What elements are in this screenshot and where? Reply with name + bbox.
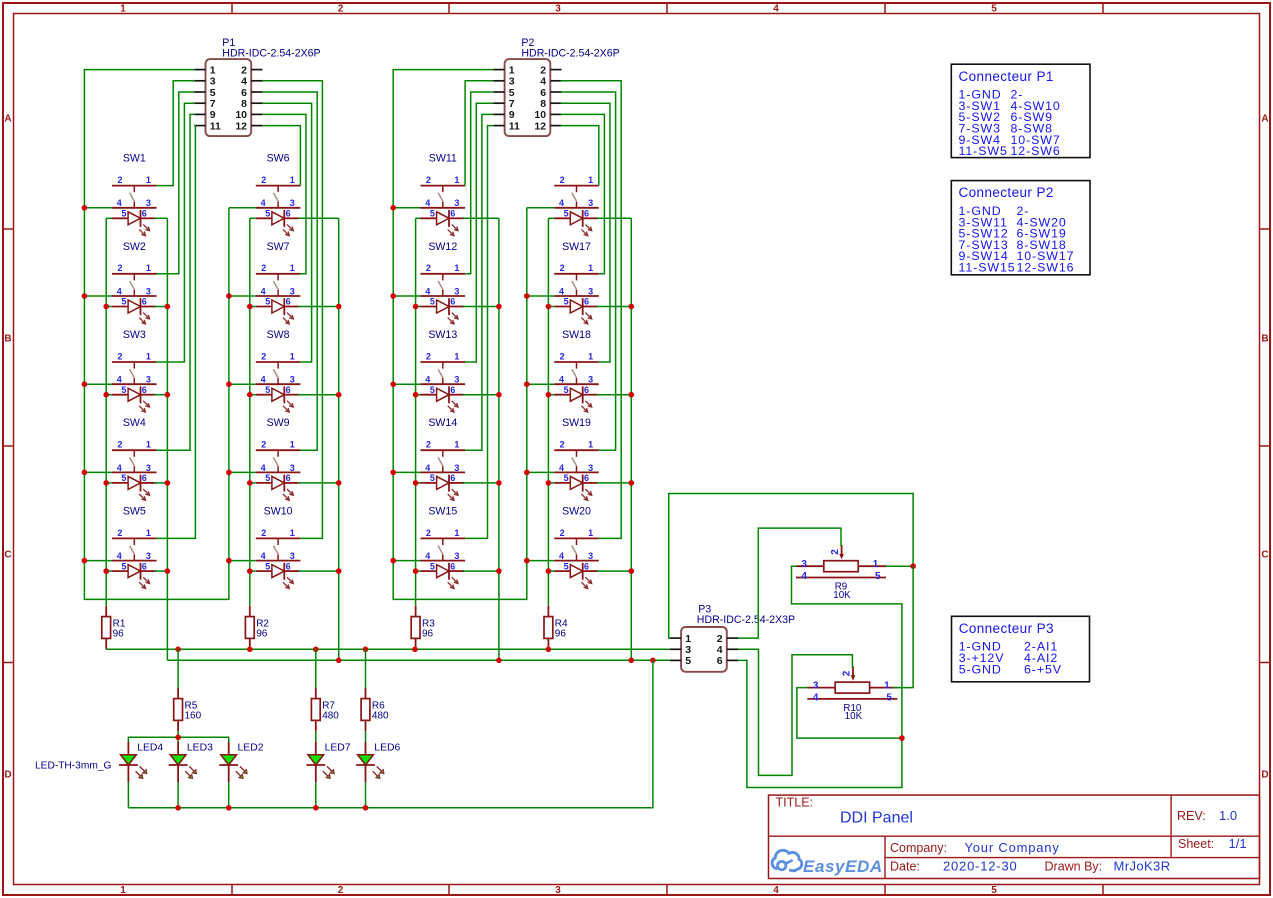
svg-text:6: 6 — [584, 209, 589, 219]
switch SW18 lever — [572, 369, 577, 378]
P2 pin 10 stub — [550, 113, 561, 115]
wire cathode tap SW8 pin 6 — [298, 394, 339, 396]
switch SW7 LED triangle — [272, 300, 284, 313]
ruler column ticks top — [232, 3, 1103, 14]
svg-text:96: 96 — [256, 629, 268, 640]
svg-text:SW10: SW10 — [264, 505, 293, 517]
junction cathode rail col1 row4 — [165, 480, 171, 486]
svg-text:1: 1 — [588, 351, 593, 361]
junction anode rail col2 row3 — [247, 392, 253, 398]
junction anode rail col2 row4 — [247, 480, 253, 486]
junction cathode rail col4 row4 — [629, 480, 635, 486]
switch SW9 pins 2-1 bar — [256, 449, 301, 451]
P1 pin 2 stub — [251, 69, 262, 71]
switch SW9 LED cathode bar — [283, 475, 285, 492]
switch SW2 LED anode stub pin 5 — [112, 306, 128, 308]
svg-text:MrJoK3R: MrJoK3R — [1114, 858, 1171, 873]
junction bus2 at col2 cathode rail — [336, 658, 342, 664]
LED LED3 cathode bar — [169, 764, 188, 766]
P3 pin 5 stub — [670, 659, 681, 661]
svg-text:6: 6 — [717, 655, 723, 667]
wire GND tap to SW6 pin 4 — [229, 207, 256, 209]
svg-text:SW13: SW13 — [428, 329, 457, 341]
switch SW12 pins 4-3 bar — [421, 295, 466, 297]
wire anode tap SW8 pin 5 — [250, 394, 256, 396]
wire cathode tap SW7 pin 6 — [298, 306, 339, 308]
wire anode tap SW9 pin 5 — [250, 482, 256, 484]
wire GND net: P2 pin1 down left rail col3, across, up col4 rail — [393, 70, 527, 600]
P1 pin 1 stub — [194, 69, 205, 71]
switch SW12 lever — [438, 281, 443, 290]
wire R9 pin1 to loop — [885, 565, 913, 567]
switch SW9 lever — [273, 457, 278, 466]
switch SW12 LED anode stub pin 5 — [421, 306, 437, 308]
title block divider logo cell — [884, 836, 886, 878]
svg-text:2: 2 — [560, 351, 565, 361]
svg-text:R1: R1 — [113, 618, 126, 629]
svg-text:6: 6 — [286, 473, 291, 483]
switch SW10 LED cathode stub pin 6 — [284, 570, 299, 572]
svg-text:R5: R5 — [185, 700, 198, 711]
wire cathode tap SW15 pin 6 — [463, 570, 499, 572]
wire anode tap SW2 pin 5 — [106, 306, 112, 308]
wire P3 pin6 +5V down around to R9/R10 pin3 node — [738, 660, 902, 787]
junction bus1 at R4 — [546, 647, 552, 653]
switch SW7 LED anode stub pin 5 — [256, 306, 272, 308]
svg-text:6: 6 — [142, 473, 147, 483]
wire P2 pin 6 to SW19 pin 1 — [561, 92, 616, 450]
svg-text:Drawn By:: Drawn By: — [1045, 859, 1103, 873]
junction anode rail col3 row2 — [413, 304, 419, 310]
switch SW15 LED cathode bar — [448, 563, 450, 580]
svg-text:4: 4 — [425, 551, 430, 561]
svg-text:7: 7 — [509, 98, 515, 110]
svg-text:B: B — [4, 334, 11, 345]
svg-text:5: 5 — [564, 385, 569, 395]
junction anode rail col3 row3 — [413, 392, 419, 398]
switch SW17 LED triangle — [570, 300, 582, 313]
wire P2 pin 10 to SW17 pin 1 — [561, 114, 605, 273]
P2 pin 11 stub — [493, 125, 504, 127]
svg-text:SW7: SW7 — [267, 241, 290, 253]
svg-text:96: 96 — [422, 629, 434, 640]
svg-text:5: 5 — [685, 655, 691, 667]
potentiometer R9 left lead pin 3 — [796, 565, 824, 567]
svg-text:3: 3 — [454, 463, 459, 473]
svg-text:1: 1 — [588, 263, 593, 273]
svg-text:1: 1 — [120, 4, 126, 15]
connector P2 body — [505, 59, 551, 136]
svg-text:4: 4 — [425, 463, 430, 473]
svg-text:10K: 10K — [845, 711, 863, 722]
svg-text:6: 6 — [450, 473, 455, 483]
switch SW5 LED cathode stub pin 6 — [141, 570, 156, 572]
P3 pin 3 stub — [670, 648, 681, 650]
wire R7 bottom to LED7 — [315, 731, 317, 742]
switch SW19 LED cathode bar — [582, 475, 584, 492]
svg-text:4: 4 — [425, 286, 430, 296]
switch SW3 LED light arrows — [143, 401, 149, 407]
svg-text:2: 2 — [117, 528, 122, 538]
switch SW18 LED cathode bar — [582, 386, 584, 403]
svg-text:12-SW6: 12-SW6 — [1011, 144, 1061, 158]
svg-text:6: 6 — [584, 561, 589, 571]
svg-text:160: 160 — [185, 711, 202, 722]
P2 pin 1 stub — [493, 69, 504, 71]
wire anode tap SW5 pin 5 — [106, 570, 112, 572]
wire anode tap SW19 pin 5 — [548, 482, 554, 484]
switch SW1 LED anode stub pin 5 — [112, 217, 128, 219]
svg-text:SW4: SW4 — [123, 417, 146, 429]
svg-text:Connecteur P2: Connecteur P2 — [959, 185, 1054, 200]
P1 pin 8 stub — [251, 102, 262, 104]
switch SW4 pins 4-3 bar — [112, 471, 157, 473]
junction anode rail col2 row5 — [247, 568, 253, 574]
switch SW10 lever — [273, 546, 278, 555]
wire cathode tap SW5 pin 6 — [154, 570, 167, 572]
svg-text:SW20: SW20 — [562, 505, 591, 517]
switch SW6 LED anode stub pin 5 — [256, 217, 272, 219]
svg-text:LED7: LED7 — [325, 743, 351, 754]
junction GND rail col1 row5 — [82, 558, 88, 564]
switch SW5 LED cathode bar — [140, 563, 142, 580]
svg-text:1: 1 — [454, 528, 459, 538]
svg-text:Connecteur P3: Connecteur P3 — [959, 621, 1054, 636]
svg-text:1: 1 — [509, 64, 515, 76]
junction bus2 at col4 cathode rail — [629, 658, 635, 664]
junction bus1 at R2 — [247, 647, 253, 653]
svg-text:1: 1 — [588, 440, 593, 450]
svg-text:6: 6 — [540, 87, 546, 99]
junction cathode rail col1 row3 — [165, 392, 171, 398]
junction GND rail col1 row1 — [82, 205, 88, 211]
switch SW7 LED light arrows — [287, 313, 293, 319]
svg-text:5: 5 — [265, 561, 270, 571]
svg-text:4: 4 — [117, 375, 122, 385]
svg-text:SW3: SW3 — [123, 329, 146, 341]
P3 pin 1 stub — [670, 637, 681, 639]
switch SW16 pins 2-1 bar — [554, 185, 599, 187]
title block divider rev cell — [1170, 795, 1172, 858]
junction GND rail col3 row3 — [390, 381, 396, 387]
svg-text:Your Company: Your Company — [965, 840, 1060, 855]
wire anode tap SW7 pin 5 — [250, 306, 256, 308]
potentiometer R10 track line pins 4-5 — [807, 698, 897, 700]
wire anode tap SW12 pin 5 — [416, 306, 421, 308]
switch SW2 LED light arrows — [143, 313, 149, 319]
wire GND tap to SW9 pin 4 — [229, 471, 256, 473]
switch SW19 lever — [572, 457, 577, 466]
switch SW6 LED cathode bar — [283, 210, 285, 227]
LED LED3 cathode lead — [177, 765, 179, 782]
switch SW2 lever — [130, 281, 135, 290]
switch SW10 pins 4-3 bar — [256, 560, 301, 562]
wire P1 pin 9 to SW4 pin 1 — [157, 114, 195, 450]
wire cathode tap SW2 pin 6 — [154, 306, 167, 308]
svg-text:SW15: SW15 — [428, 505, 457, 517]
svg-text:6: 6 — [450, 209, 455, 219]
switch SW1 pins 4-3 bar — [112, 207, 157, 209]
svg-text:3: 3 — [588, 375, 593, 385]
wire P1 pin 11 to SW5 pin 1 — [157, 126, 196, 539]
switch SW7 lever — [273, 281, 278, 290]
svg-text:3: 3 — [555, 885, 561, 896]
P1 pin 5 stub — [194, 91, 205, 93]
svg-text:3: 3 — [801, 559, 807, 570]
junction GND rail col2 row4 — [226, 470, 232, 476]
switch SW6 LED cathode stub pin 6 — [284, 217, 299, 219]
wire LED anode rail col4 down to resistor R4 — [547, 218, 549, 606]
junction GND rail col4 row5 — [524, 558, 530, 564]
switch SW7 pins 2-1 bar — [256, 273, 301, 275]
svg-text:5: 5 — [121, 561, 126, 571]
P1 pin 3 stub — [194, 80, 205, 82]
wire P1 pin 12 to SW6 pin 1 — [262, 126, 300, 186]
svg-text:A: A — [4, 114, 11, 125]
svg-text:6: 6 — [286, 385, 291, 395]
svg-text:LED3: LED3 — [187, 743, 213, 754]
svg-text:8: 8 — [241, 98, 247, 110]
svg-text:2: 2 — [560, 440, 565, 450]
wire R7 top to bus1 — [315, 649, 317, 688]
switch SW15 LED triangle — [437, 565, 449, 578]
svg-text:1.0: 1.0 — [1219, 808, 1237, 823]
switch SW16 pins 4-3 bar — [554, 207, 599, 209]
switch SW4 LED anode stub pin 5 — [112, 482, 128, 484]
svg-text:LED2: LED2 — [238, 743, 264, 754]
P1 pin 4 stub — [251, 80, 262, 82]
switch SW12 LED cathode bar — [448, 298, 450, 315]
junction GND rail col1 row4 — [82, 470, 88, 476]
wire GND tap to SW19 pin 4 — [527, 471, 554, 473]
switch SW16 LED cathode stub pin 6 — [583, 217, 598, 219]
wire +12V bus1 from R1 to P3 pin 3 — [106, 648, 670, 650]
switch SW11 pins 4-3 bar — [421, 207, 466, 209]
svg-text:D: D — [4, 770, 11, 781]
switch SW14 pins 4-3 bar — [421, 471, 466, 473]
wire P2 pin 4 to SW20 pin 1 — [561, 81, 622, 539]
junction bus1 at R6 — [363, 647, 369, 653]
svg-text:TITLE:: TITLE: — [776, 795, 814, 809]
switch SW3 pins 2-1 bar — [112, 361, 157, 363]
svg-text:4: 4 — [241, 76, 247, 88]
junction GND rail col1 row3 — [82, 381, 88, 387]
wire anode tap SW15 pin 5 — [416, 570, 421, 572]
wire GND tap to SW10 pin 4 — [229, 560, 256, 562]
switch SW10 LED light arrows — [287, 577, 293, 583]
svg-text:SW14: SW14 — [428, 417, 457, 429]
svg-text:2: 2 — [426, 175, 431, 185]
svg-text:DDI Panel: DDI Panel — [840, 810, 913, 827]
wire GND tap to SW12 pin 4 — [393, 295, 420, 297]
resistor R6 body — [361, 699, 370, 721]
wire P1 pin 7 to SW3 pin 1 — [157, 103, 195, 362]
switch SW19 LED triangle — [570, 476, 582, 489]
switch SW18 pins 4-3 bar — [554, 383, 599, 385]
wire cathode tap SW16 pin 6 — [597, 217, 632, 219]
switch SW12 LED cathode stub pin 6 — [449, 306, 464, 308]
resistor R2 bottom lead — [249, 638, 251, 649]
svg-text:5: 5 — [875, 571, 881, 582]
switch SW12 pins 2-1 bar — [421, 273, 466, 275]
svg-text:3: 3 — [146, 375, 151, 385]
svg-text:1: 1 — [588, 175, 593, 185]
svg-text:SW11: SW11 — [429, 153, 457, 165]
switch SW18 LED light arrows — [585, 401, 591, 407]
svg-text:9: 9 — [210, 109, 216, 121]
switch SW8 lever — [273, 369, 278, 378]
resistor R6 top lead — [365, 688, 367, 699]
P1 pin 6 stub — [251, 91, 262, 93]
svg-text:3: 3 — [588, 198, 593, 208]
wire GND tap to SW3 pin 4 — [84, 383, 112, 385]
svg-text:5: 5 — [121, 297, 126, 307]
svg-text:4: 4 — [425, 198, 430, 208]
P2 pin 9 stub — [493, 113, 504, 115]
resistor R3 top lead — [415, 606, 417, 617]
svg-text:5: 5 — [121, 385, 126, 395]
junction anode rail col4 row2 — [546, 304, 552, 310]
junction anode rail col2 row2 — [247, 304, 253, 310]
switch SW8 LED light arrows — [287, 401, 293, 407]
wire cathode tap SW11 pin 6 — [463, 217, 499, 219]
svg-text:11: 11 — [210, 120, 221, 132]
svg-text:3: 3 — [588, 286, 593, 296]
svg-text:HDR-IDC-2.54-2X6P: HDR-IDC-2.54-2X6P — [521, 48, 619, 60]
wire anode tap SW11 pin 5 — [416, 217, 421, 219]
switch SW18 pins 2-1 bar — [554, 361, 599, 363]
LED LED7 cathode lead — [315, 765, 317, 782]
wire anode tap SW3 pin 5 — [106, 394, 112, 396]
svg-text:2: 2 — [560, 528, 565, 538]
svg-text:R6: R6 — [372, 700, 385, 711]
switch SW16 lever — [572, 193, 577, 202]
svg-text:6: 6 — [241, 87, 247, 99]
wire GND tap to SW2 pin 4 — [84, 295, 112, 297]
svg-text:SW6: SW6 — [267, 153, 290, 165]
wire GND tap to SW8 pin 4 — [229, 383, 256, 385]
svg-text:Connecteur P1: Connecteur P1 — [959, 69, 1054, 84]
wire cathode tap SW9 pin 6 — [298, 482, 339, 484]
P3 pin 2 stub — [727, 637, 738, 639]
resistor R5 body — [174, 699, 183, 721]
wire P2 pin 12 to SW16 pin 1 — [561, 126, 599, 186]
svg-text:Sheet:: Sheet: — [1178, 837, 1214, 851]
svg-text:2: 2 — [426, 528, 431, 538]
svg-text:6: 6 — [286, 561, 291, 571]
junction cathode rail col2 row4 — [336, 480, 342, 486]
switch SW11 LED cathode stub pin 6 — [449, 217, 464, 219]
svg-text:LED-TH-3mm_G: LED-TH-3mm_G — [35, 761, 111, 772]
svg-text:7: 7 — [210, 98, 216, 110]
junction bottom bus at LED7 — [313, 805, 319, 811]
wire LED3 cathode to bottom bus — [177, 782, 179, 808]
svg-text:5: 5 — [430, 473, 435, 483]
ruler column numbers bottom — [120, 885, 997, 896]
svg-text:2: 2 — [426, 351, 431, 361]
P2 pin 7 stub — [493, 102, 504, 104]
LED LED2 cathode bar — [219, 764, 238, 766]
svg-text:3: 3 — [588, 551, 593, 561]
P2 pin 12 stub — [550, 125, 561, 127]
svg-text:2: 2 — [261, 263, 266, 273]
switch SW17 LED light arrows — [585, 313, 591, 319]
svg-text:5: 5 — [210, 87, 216, 99]
switch SW14 pins 2-1 bar — [421, 449, 466, 451]
junction anode rail col1 row3 — [103, 392, 109, 398]
switch SW19 LED anode stub pin 5 — [554, 482, 570, 484]
svg-text:1: 1 — [120, 885, 126, 896]
junction GND rail col2 row5 — [226, 558, 232, 564]
junction bus2 at col3 cathode rail — [496, 658, 502, 664]
wire P3 pin1 GND loop up and over to R9 pin1 — [669, 494, 913, 639]
LED LED3 light arrows — [189, 766, 196, 773]
junction cathode rail col1 row5 — [165, 568, 171, 574]
svg-text:1: 1 — [685, 633, 691, 645]
svg-text:SW5: SW5 — [123, 505, 146, 517]
junction bottom bus at LED3 — [175, 805, 181, 811]
wire GND tap to SW17 pin 4 — [527, 295, 554, 297]
switch SW2 LED cathode bar — [140, 298, 142, 315]
svg-text:3: 3 — [588, 463, 593, 473]
wire P2 pin 3 to SW11 pin 1 — [465, 81, 493, 186]
wire P3 pin2 AI1 to R9 wiper — [738, 528, 841, 638]
wire anode tap SW4 pin 5 — [106, 482, 112, 484]
resistor R5 top lead — [177, 688, 179, 699]
svg-text:9: 9 — [509, 109, 515, 121]
wire anode tap SW14 pin 5 — [416, 482, 421, 484]
svg-text:C: C — [4, 550, 11, 561]
svg-text:5: 5 — [265, 297, 270, 307]
note box Connecteur P3 — [952, 616, 1090, 682]
svg-text:LED6: LED6 — [374, 743, 400, 754]
switch SW7 LED cathode stub pin 6 — [284, 306, 299, 308]
svg-text:3: 3 — [146, 463, 151, 473]
wire GND tap to SW18 pin 4 — [527, 383, 554, 385]
switch SW19 pins 4-3 bar — [554, 471, 599, 473]
junction GND rail col2 row2 — [226, 293, 232, 299]
switch SW6 LED triangle — [272, 212, 284, 225]
LED LED4 anode lead — [127, 742, 129, 755]
svg-text:2: 2 — [560, 263, 565, 273]
svg-text:5: 5 — [121, 473, 126, 483]
svg-text:1: 1 — [146, 528, 151, 538]
potentiometer R10 right lead pin 1 — [870, 687, 898, 689]
wire R6 bottom to LED6 — [365, 731, 367, 742]
svg-text:1: 1 — [454, 175, 459, 185]
wire GND tap to SW5 pin 4 — [84, 560, 112, 562]
svg-text:6: 6 — [584, 297, 589, 307]
P1 pin 7 stub — [194, 102, 205, 104]
switch SW12 LED triangle — [437, 300, 449, 313]
switch SW10 LED cathode bar — [283, 563, 285, 580]
wire anode tap SW20 pin 5 — [548, 570, 554, 572]
LED LED2 cathode lead — [228, 765, 230, 782]
svg-text:5: 5 — [564, 561, 569, 571]
svg-text:5: 5 — [509, 87, 515, 99]
switch SW3 pins 4-3 bar — [112, 383, 157, 385]
resistor R4 top lead — [547, 606, 549, 617]
switch SW3 LED triangle — [128, 388, 140, 401]
junction cathode rail col2 row5 — [336, 568, 342, 574]
switch SW6 LED light arrows — [287, 224, 293, 230]
switch SW11 lever — [438, 193, 443, 202]
svg-text:5: 5 — [265, 385, 270, 395]
svg-text:2: 2 — [830, 549, 841, 555]
LED LED2 light arrows — [240, 766, 247, 773]
resistor R6 bottom lead — [365, 720, 367, 731]
junction GND rail col1 row2 — [82, 293, 88, 299]
